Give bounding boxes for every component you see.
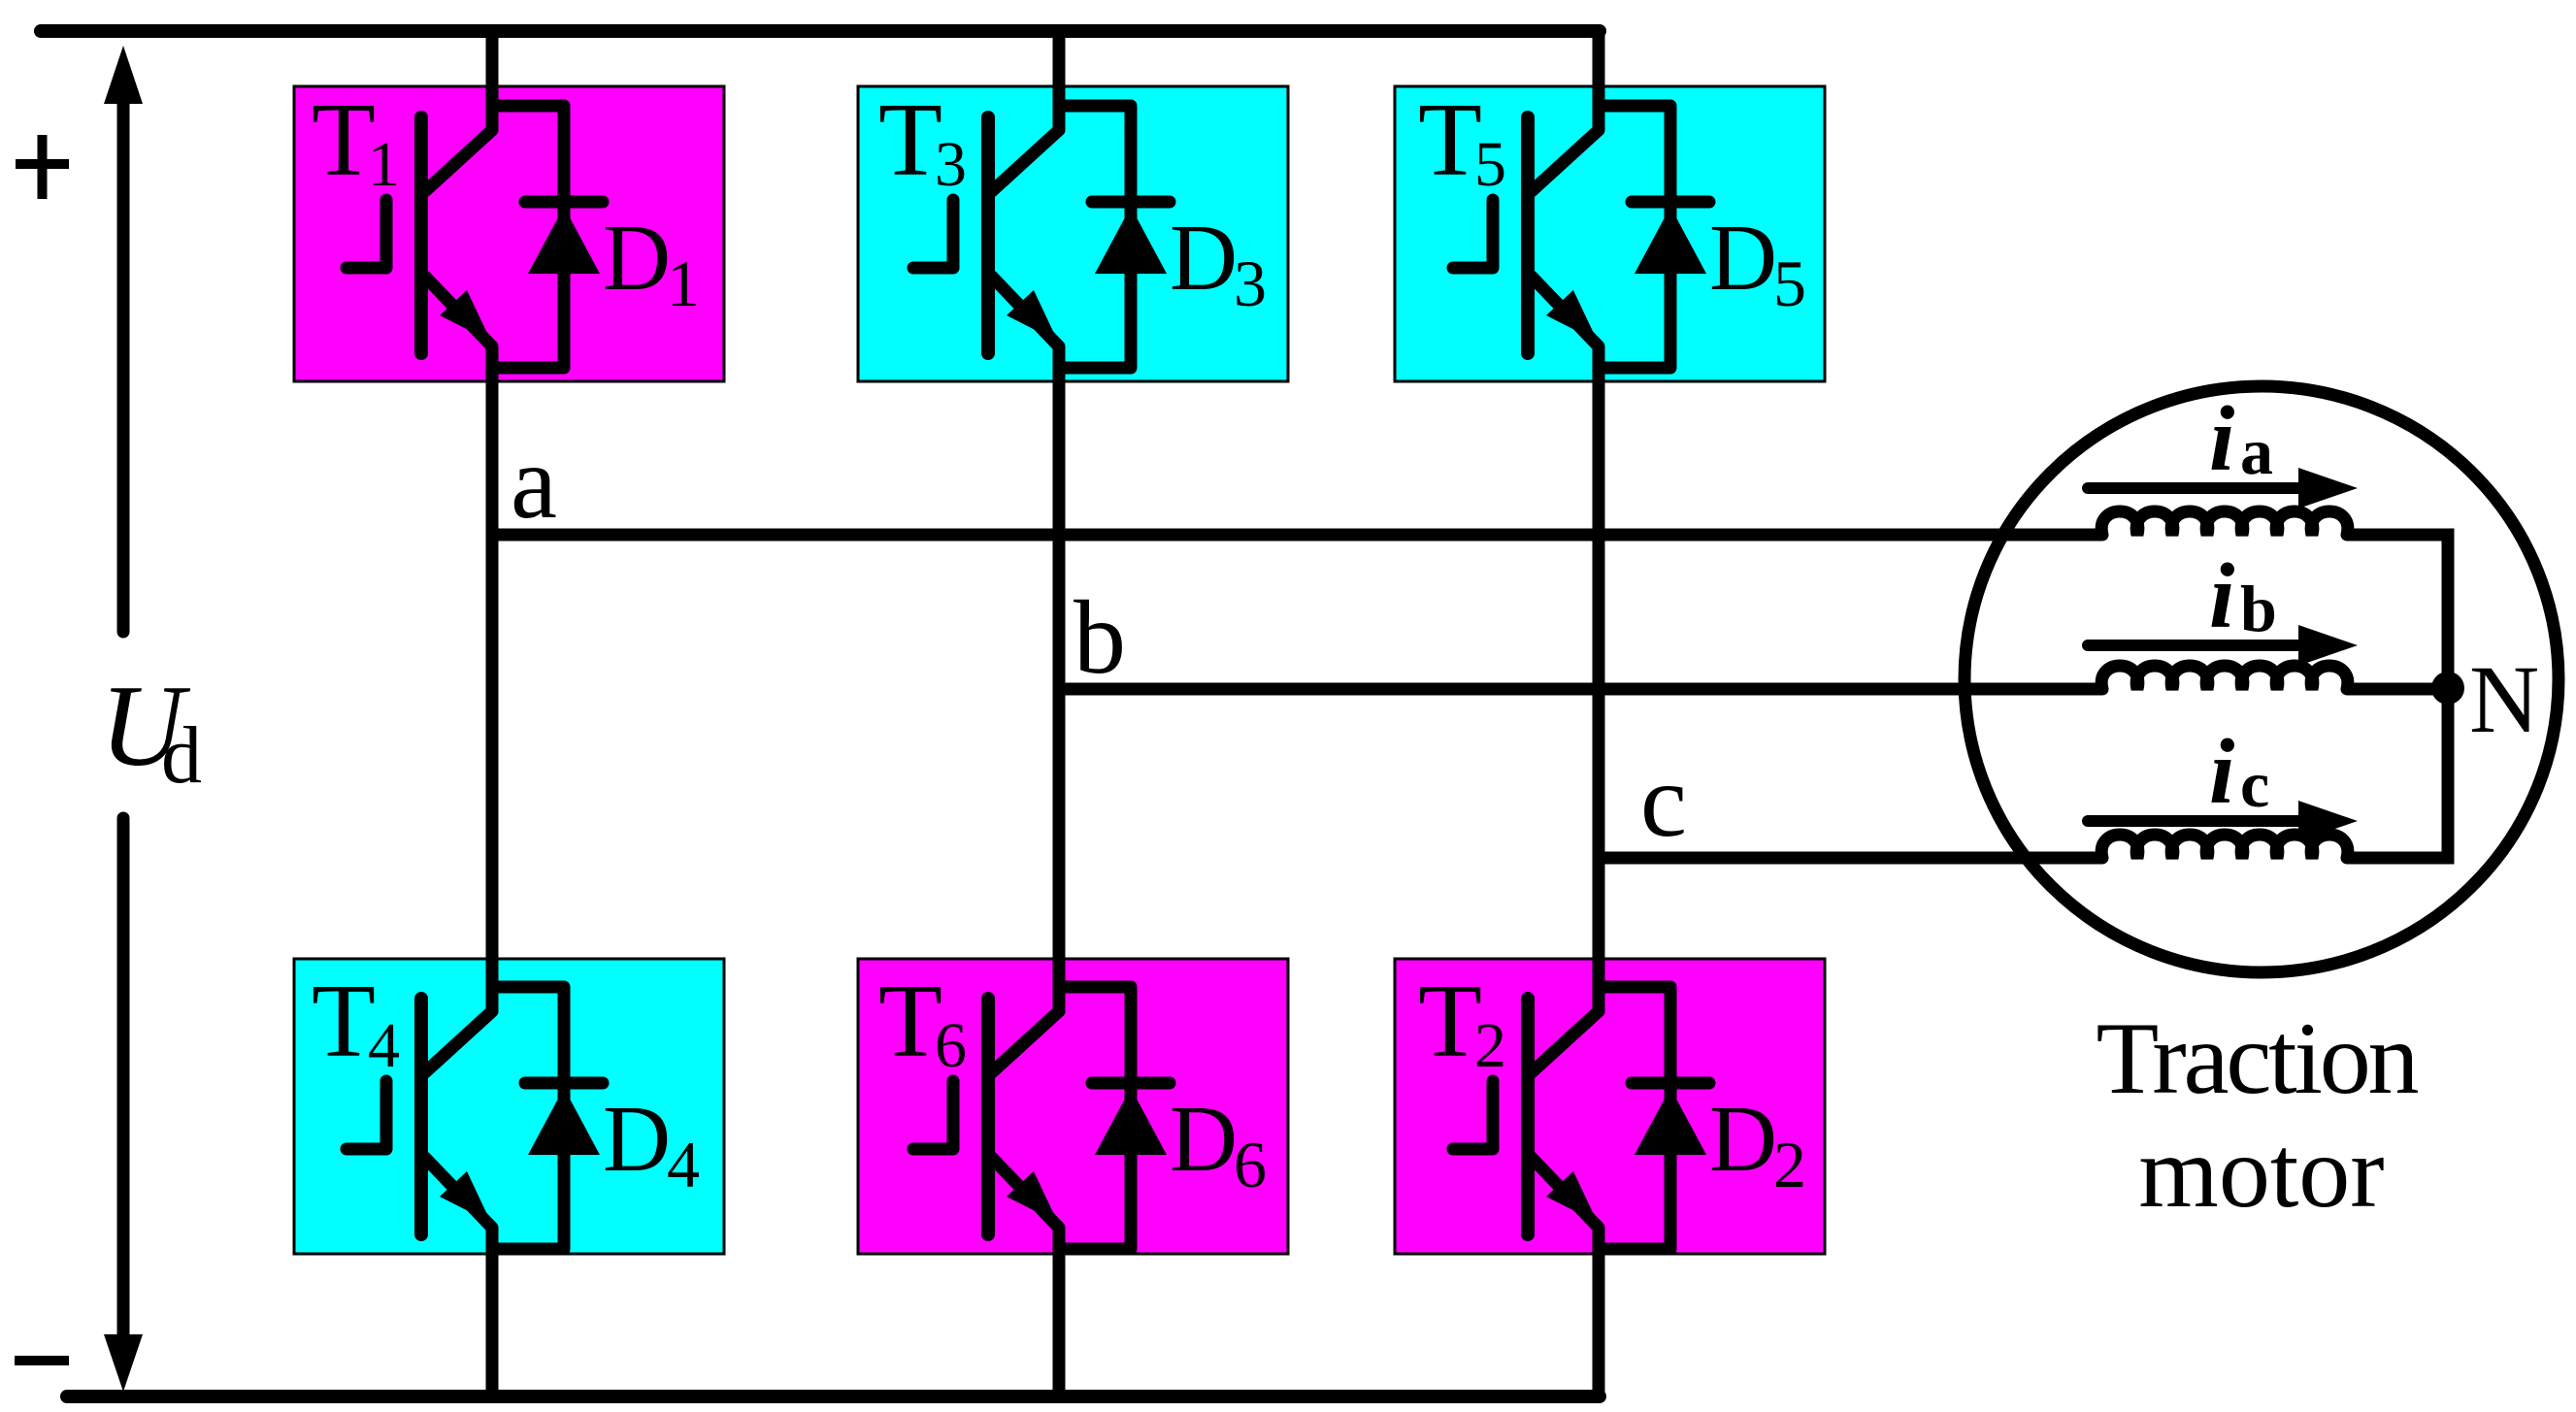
svg-text:T: T: [312, 82, 376, 198]
diode D2: [1599, 987, 1709, 1249]
svg-text:D: D: [603, 206, 671, 310]
label D6: [1170, 1087, 1267, 1201]
label Traction motor: [2097, 1002, 2420, 1229]
current arrow ib: [2088, 625, 2358, 666]
diode D5: [1599, 106, 1709, 368]
label D5: [1709, 206, 1806, 320]
svg-text:5: 5: [1773, 246, 1806, 320]
svg-text:3: 3: [935, 129, 967, 200]
svg-text:T: T: [1418, 82, 1482, 198]
svg-text:D: D: [1709, 206, 1777, 310]
svg-text:T: T: [878, 964, 942, 1079]
IGBT module box T1/D1: [294, 86, 724, 381]
IGBT module box T6/D6: [858, 959, 1288, 1254]
svg-text:c: c: [1640, 743, 1687, 859]
svg-text:D: D: [1709, 1087, 1777, 1191]
current arrow ic: [2088, 801, 2358, 841]
IGBT module box T4/D4: [294, 959, 724, 1254]
svg-text:2: 2: [1773, 1128, 1806, 1201]
svg-text:D: D: [603, 1087, 671, 1191]
svg-text:D: D: [1170, 206, 1238, 310]
label ic: [2209, 720, 2269, 823]
label T6: [878, 964, 967, 1081]
plus terminal label: [16, 135, 69, 199]
svg-text:D: D: [1170, 1087, 1238, 1191]
wire leg phase a bottom (emitter of T4 to negative bus): [425, 1158, 492, 1396]
traction motor body (circle): [1965, 386, 2559, 972]
svg-text:4: 4: [368, 1010, 400, 1081]
diode D6: [1059, 987, 1170, 1249]
wire phase b to motor: [1059, 683, 2102, 696]
svg-text:a: a: [2240, 414, 2273, 488]
wire leg phase c bottom (emitter of T2 to negative bus): [1532, 1158, 1599, 1396]
svg-text:2: 2: [1474, 1010, 1506, 1081]
label Ud: [100, 661, 202, 801]
svg-text:4: 4: [667, 1128, 700, 1201]
svg-text:b: b: [2240, 572, 2277, 645]
svg-text:5: 5: [1474, 129, 1506, 200]
wire leg phase c (emitter of T5 down through node c to T2): [1532, 277, 1599, 1072]
label D3: [1170, 206, 1267, 320]
wire leg phase b bottom (emitter of T6 to negative bus): [992, 1158, 1059, 1396]
label T4: [312, 964, 400, 1081]
transistor T1: [347, 31, 492, 353]
svg-text:N: N: [2469, 645, 2539, 753]
wire negative DC bus (bottom): [67, 1390, 1600, 1403]
IGBT module box T3/D3: [858, 86, 1288, 381]
svg-text:T: T: [1418, 964, 1482, 1079]
wire phase c to motor: [1599, 852, 2102, 865]
wire star connection (a and c ends to N): [2347, 535, 2448, 858]
transistor T6: [913, 912, 1059, 1234]
label T1: [312, 82, 400, 200]
IGBT module box T2/D2: [1395, 959, 1825, 1254]
svg-text:i: i: [2209, 544, 2234, 647]
transistor T4: [347, 912, 492, 1234]
IGBT module box T5/D5: [1395, 86, 1825, 381]
svg-text:1: 1: [667, 246, 700, 320]
svg-text:T: T: [312, 964, 376, 1079]
svg-text:Traction: Traction: [2097, 1002, 2420, 1115]
svg-text:a: a: [511, 425, 557, 541]
wire b end to N: [2347, 683, 2448, 696]
label ia: [2209, 387, 2273, 490]
inductor winding phase a: [2101, 511, 2348, 535]
wire phase a to motor: [492, 529, 2102, 542]
inductor winding phase c: [2101, 835, 2348, 858]
wire leg phase b (emitter of T3 down through node b to T6): [992, 277, 1059, 1072]
transistor T3: [913, 31, 1059, 353]
diode D3: [1059, 106, 1170, 368]
svg-text:6: 6: [935, 1010, 967, 1081]
svg-text:i: i: [2209, 720, 2234, 823]
Ud measurement arrow (double headed): [104, 46, 143, 1392]
svg-text:6: 6: [1234, 1128, 1267, 1201]
svg-text:d: d: [161, 710, 202, 801]
current arrow ia: [2088, 468, 2358, 509]
transistor T5: [1453, 31, 1599, 353]
diode D1: [492, 106, 603, 368]
svg-text:motor: motor: [2138, 1115, 2384, 1229]
label D1: [603, 206, 700, 320]
svg-text:1: 1: [368, 129, 400, 200]
label D2: [1709, 1087, 1806, 1201]
svg-text:c: c: [2240, 747, 2269, 821]
svg-text:i: i: [2209, 387, 2234, 490]
minus terminal label: [15, 1356, 69, 1365]
label T3: [878, 82, 967, 200]
diode D4: [492, 987, 603, 1249]
node N junction dot: [2431, 672, 2464, 705]
label T2: [1418, 964, 1506, 1081]
label T5: [1418, 82, 1506, 200]
svg-text:b: b: [1073, 580, 1126, 696]
inductor winding phase b: [2101, 666, 2348, 689]
transistor T2: [1453, 912, 1599, 1234]
wire leg phase a (emitter of T1 down through node a to T4): [425, 277, 492, 1072]
label D4: [603, 1087, 700, 1201]
label ib: [2209, 544, 2277, 647]
svg-text:3: 3: [1234, 246, 1267, 320]
svg-text:T: T: [878, 82, 942, 198]
wire positive DC bus (top): [41, 24, 1600, 38]
